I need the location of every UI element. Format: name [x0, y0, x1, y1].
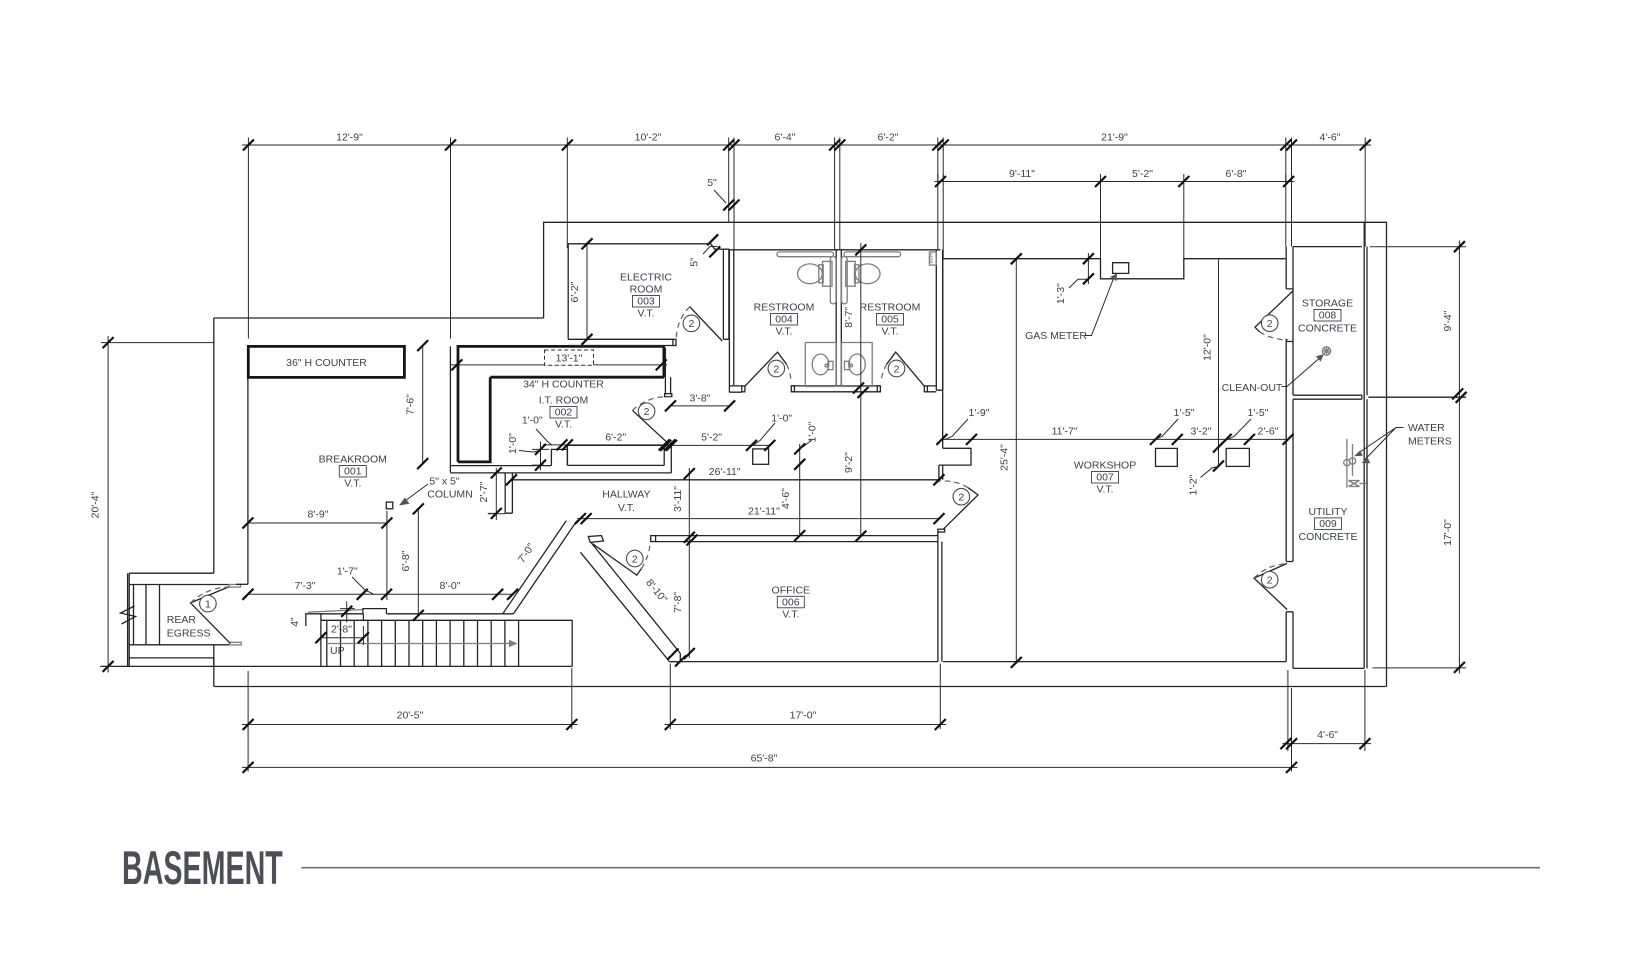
- svg-text:BREAKROOM: BREAKROOM: [319, 454, 387, 466]
- svg-text:2: 2: [958, 492, 964, 504]
- 4" bracket: [340, 602, 355, 623]
- 5x5 column: [386, 502, 393, 509]
- svg-text:26'-11": 26'-11": [709, 466, 741, 478]
- svg-text:12'-9": 12'-9": [336, 132, 363, 144]
- restroom 004 west wall: [729, 250, 733, 392]
- svg-text:WH: WH: [928, 253, 935, 264]
- storage/workshop west wall lower: [1286, 339, 1293, 478]
- electric room 6'-2" dim: [586, 244, 588, 339]
- storage/utility east wall x=1364.2: [1364, 222, 1367, 668]
- 1'-0" IT leaders: [536, 429, 552, 445]
- svg-text:1'-0": 1'-0": [522, 415, 543, 427]
- svg-text:9'-4": 9'-4": [1442, 310, 1454, 331]
- svg-text:4'-6": 4'-6": [1317, 729, 1338, 741]
- svg-text:20'-5": 20'-5": [397, 710, 424, 722]
- svg-text:RESTROOM: RESTROOM: [860, 302, 921, 314]
- svg-text:STORAGE: STORAGE: [1302, 298, 1353, 310]
- svg-text:34" H COUNTER: 34" H COUNTER: [523, 379, 604, 391]
- gas meter leader arrow: [1085, 279, 1114, 336]
- toilet 005: [846, 261, 856, 286]
- svg-text:2: 2: [632, 553, 638, 565]
- svg-text:5'-2": 5'-2": [701, 432, 722, 444]
- 36in counter (thick): [248, 346, 404, 377]
- 1'-2" leader: [1201, 467, 1219, 478]
- 13'-1" dim line: [450, 364, 667, 366]
- svg-text:5": 5": [707, 177, 717, 189]
- svg-text:2: 2: [894, 363, 900, 375]
- 25'-4" dim line: [1015, 259, 1017, 663]
- svg-text:2: 2: [1267, 575, 1273, 587]
- office east wall: [938, 532, 942, 662]
- storage/workshop west wall upper stub: [1286, 247, 1293, 289]
- svg-text:REAR: REAR: [167, 614, 197, 626]
- dim row 2 line y=181.5: [935, 181, 1295, 183]
- svg-text:HALLWAY: HALLWAY: [602, 489, 650, 501]
- 2'-7" dim: [488, 468, 506, 520]
- stair UP arrow: [327, 643, 509, 645]
- stair top wall jogs: [306, 609, 514, 626]
- svg-text:RESTROOM: RESTROOM: [754, 302, 815, 314]
- svg-text:5": 5": [689, 257, 701, 267]
- upper-left pocket wall y=318: [214, 317, 544, 319]
- IT room counter 34in (thick L): [458, 346, 664, 462]
- restroom south wall segments: [729, 386, 942, 392]
- svg-text:009: 009: [1319, 518, 1337, 530]
- svg-text:007: 007: [1096, 472, 1114, 484]
- svg-text:7'-8": 7'-8": [672, 592, 684, 613]
- office south wall: [670, 661, 1287, 663]
- svg-text:3'-8": 3'-8": [690, 393, 711, 405]
- office NE door jamb: [938, 529, 945, 532]
- svg-text:005: 005: [881, 314, 899, 326]
- IT south window rect: [567, 445, 671, 473]
- svg-text:002: 002: [555, 407, 573, 419]
- svg-text:ELECTRIC: ELECTRIC: [620, 272, 672, 284]
- svg-text:2: 2: [688, 318, 694, 330]
- utility west wall: [1286, 399, 1293, 561]
- restroom 005 door: [887, 352, 925, 386]
- rear egress stair treads: [134, 585, 160, 645]
- svg-text:36" H COUNTER: 36" H COUNTER: [286, 357, 367, 369]
- dim row 1 extension lines: [248, 138, 1365, 339]
- workshop 11'-7" dim line y=439.4: [942, 438, 1288, 440]
- svg-text:METERS: METERS: [1408, 436, 1452, 448]
- svg-text:OFFICE: OFFICE: [772, 584, 811, 596]
- 3'-8" dim: [671, 405, 730, 407]
- grab bars restroom 005: [844, 252, 901, 257]
- 1'-3" gas recess dim: [1069, 253, 1088, 288]
- dim row 1 line y=145: [242, 144, 1371, 146]
- grab bars restroom 004: [777, 252, 834, 257]
- door number circles: [200, 315, 1278, 612]
- stair block: [321, 620, 572, 666]
- svg-text:4'-6": 4'-6": [780, 488, 792, 509]
- utility south wall: [1293, 667, 1364, 669]
- svg-text:003: 003: [637, 296, 655, 308]
- restroom 004 door: [745, 352, 787, 386]
- svg-text:4'-6": 4'-6": [1320, 132, 1341, 144]
- 13'-1" dashed label box: [545, 350, 594, 365]
- svg-text:7'-3": 7'-3": [295, 580, 316, 592]
- svg-text:1'-5": 1'-5": [1174, 407, 1195, 419]
- svg-text:008: 008: [1319, 310, 1337, 322]
- toilet 004: [823, 261, 833, 286]
- rear egress door jambs: [229, 585, 241, 588]
- utility door: [1254, 563, 1287, 609]
- workshop east wall = storage west face: [1292, 289, 1294, 342]
- svg-text:CLEAN-OUT: CLEAN-OUT: [1222, 382, 1283, 394]
- workshop north wall y=258.7 with gas recess: [943, 259, 1286, 279]
- dim row 1 ticks: [243, 140, 1371, 151]
- utility west wall below door: [1286, 612, 1293, 669]
- svg-text:2: 2: [773, 363, 779, 375]
- svg-text:BASEMENT: BASEMENT: [122, 843, 283, 895]
- svg-text:V.T.: V.T.: [555, 419, 572, 431]
- svg-text:25'-4": 25'-4": [999, 444, 1011, 471]
- svg-text:V.T.: V.T.: [881, 326, 898, 338]
- svg-text:V.T.: V.T.: [775, 326, 792, 338]
- IT door leaf+arc: [633, 410, 669, 443]
- svg-text:V.T.: V.T.: [344, 478, 361, 490]
- svg-text:ROOM: ROOM: [630, 284, 663, 296]
- vanity 004: [805, 343, 836, 387]
- electric door leaf+arc: [690, 307, 723, 341]
- 8'-9" dim: [248, 511, 387, 600]
- hallway north line y=479.8: [512, 479, 938, 481]
- 3'-11"/7'-8" dim: [688, 468, 690, 658]
- svg-text:UTILITY: UTILITY: [1308, 506, 1347, 518]
- workshop west wall: [939, 250, 971, 480]
- svg-text:CONCRETE: CONCRETE: [1298, 323, 1357, 335]
- svg-text:COLUMN: COLUMN: [427, 489, 473, 501]
- clean-out leader arrow: [1282, 359, 1319, 387]
- 5in dim top, leader + double ticks: [714, 190, 726, 203]
- 12'-0" dim line: [1218, 259, 1220, 466]
- svg-text:2: 2: [644, 406, 650, 418]
- svg-text:21'-9": 21'-9": [1101, 132, 1128, 144]
- 7'-6" dim: [422, 346, 424, 464]
- svg-text:EGRESS: EGRESS: [167, 627, 211, 639]
- svg-text:9'-2": 9'-2": [843, 452, 855, 473]
- storage door: [1255, 291, 1293, 332]
- svg-text:1'-5": 1'-5": [1248, 407, 1269, 419]
- svg-text:8'-9": 8'-9": [308, 508, 329, 520]
- svg-text:2: 2: [1267, 318, 1273, 330]
- breakroom west wall x=247.9: [247, 378, 249, 585]
- vestibule column 1'x1': [753, 449, 769, 464]
- west outer wall x=213.8: [213, 318, 215, 573]
- left dim 20'-4" x=108: [100, 336, 214, 673]
- clean-out symbol: [1322, 347, 1330, 355]
- IT south wall: [450, 465, 671, 473]
- svg-text:21'-11": 21'-11": [748, 506, 780, 518]
- svg-text:I.T. ROOM: I.T. ROOM: [539, 395, 589, 407]
- svg-text:1'-9": 1'-9": [969, 407, 990, 419]
- restroom partition wall: [836, 250, 841, 386]
- breakroom east wall x=450.4: [449, 346, 451, 472]
- svg-text:WATER: WATER: [1408, 422, 1445, 434]
- svg-text:001: 001: [344, 466, 362, 478]
- svg-text:3'-11": 3'-11": [672, 486, 684, 512]
- 6'-8" dim: [417, 509, 419, 616]
- office NE door: [943, 488, 978, 530]
- workshop columns: [1156, 448, 1178, 466]
- svg-text:6'-2": 6'-2": [569, 281, 581, 302]
- svg-text:006: 006: [782, 596, 800, 608]
- IT south wall pilaster bump: [551, 449, 567, 465]
- svg-text:5'-2": 5'-2": [1132, 168, 1153, 180]
- IT east wall: [665, 348, 670, 394]
- svg-text:2'-8": 2'-8": [331, 624, 352, 636]
- svg-text:1'-3": 1'-3": [1055, 283, 1067, 304]
- restroom door jambs: [742, 386, 745, 392]
- stair guard 7'-0" diagonal (double): [503, 521, 577, 614]
- 9'-2"/8'-7" dim: [860, 243, 862, 536]
- svg-text:17'-0": 17'-0": [1442, 519, 1454, 546]
- svg-text:1'-0": 1'-0": [807, 421, 819, 442]
- svg-text:V.T.: V.T.: [782, 608, 799, 620]
- svg-text:1'-7": 1'-7": [337, 565, 358, 577]
- 6'-2" IT dim: [543, 444, 672, 446]
- svg-text:1'-2": 1'-2": [1188, 474, 1200, 495]
- rear egress break line zigzag: [121, 606, 136, 624]
- 21'-11" dim: [577, 518, 939, 520]
- svg-text:V.T.: V.T.: [1096, 484, 1113, 496]
- svg-text:17'-0": 17'-0": [790, 710, 817, 722]
- svg-text:2'-6": 2'-6": [1258, 426, 1279, 438]
- water meters leader arrows: [1396, 427, 1404, 429]
- 2'-8" dim: [321, 626, 364, 645]
- svg-text:12'-0": 12'-0": [1201, 334, 1213, 361]
- svg-text:1'-0": 1'-0": [771, 413, 792, 425]
- stair guard 8'-10" diagonal (double): [581, 543, 681, 662]
- WH box: [930, 252, 937, 265]
- svg-text:8'-0": 8'-0": [440, 580, 461, 592]
- leaders 1'-9", 1'-5", 1'-5": [945, 419, 1251, 439]
- 5in dim at electric NE corner: [703, 247, 718, 255]
- svg-text:GAS METER: GAS METER: [1025, 330, 1087, 342]
- svg-text:11'-7": 11'-7": [1052, 426, 1078, 438]
- column leader arrow: [405, 484, 428, 501]
- rear egress bottom inner wall: [129, 645, 230, 667]
- storage north wall: [1293, 246, 1362, 248]
- storage south / utility north wall: [1293, 395, 1466, 399]
- svg-text:13'-1": 13'-1": [556, 353, 583, 365]
- 5'-2"/1'-0" vestibule dim: [666, 444, 770, 446]
- svg-text:7'-6": 7'-6": [405, 394, 417, 415]
- 1'-0" col vertical + 4'-6" extension: [799, 444, 801, 536]
- svg-text:WORKSHOP: WORKSHOP: [1074, 460, 1136, 472]
- svg-text:6'-8": 6'-8": [400, 550, 412, 571]
- gas meter box: [1113, 263, 1129, 274]
- svg-text:10'-2": 10'-2": [635, 132, 662, 144]
- electric east wall: [723, 249, 729, 339]
- svg-text:4": 4": [289, 617, 301, 627]
- svg-text:004: 004: [775, 314, 793, 326]
- bottom right dim 4'-6" y=743.6: [1283, 670, 1372, 751]
- vanity 005: [842, 343, 873, 387]
- svg-text:1'-0": 1'-0": [507, 433, 519, 454]
- svg-text:V.T.: V.T.: [637, 308, 654, 320]
- hallway west wall stub: [505, 473, 512, 513]
- svg-text:8'-7": 8'-7": [843, 307, 855, 328]
- stair landing nosing rect: [588, 536, 603, 543]
- right dims 9'-4" / 17'-0" x=1459.4: [1370, 241, 1466, 674]
- office north wall: [656, 536, 938, 542]
- south wall outer y=690.7: [214, 645, 1387, 687]
- electric room walls: [568, 244, 729, 346]
- water meters assembly: [1347, 439, 1353, 488]
- svg-text:65'-8": 65'-8": [751, 752, 778, 764]
- svg-text:9'-11": 9'-11": [1009, 168, 1035, 180]
- svg-text:6'-8": 6'-8": [1226, 168, 1247, 180]
- office west door (hallway): [593, 544, 642, 575]
- 26'-11" dim on hallway line: [506, 474, 945, 485]
- bottom dim 65'-8" y=767.4: [242, 766, 1298, 768]
- bottom dims 20'-5" / 17'-0" y=724.5: [242, 724, 946, 726]
- svg-text:UP: UP: [330, 645, 345, 657]
- south wall inner y=666.4: [102, 665, 572, 667]
- rear egress enclosure outer: [128, 573, 214, 666]
- svg-text:20'-4": 20'-4": [90, 491, 102, 518]
- building top wall y=222.3: [544, 222, 1387, 686]
- svg-text:V.T.: V.T.: [618, 502, 635, 514]
- svg-text:2'-7": 2'-7": [478, 481, 490, 502]
- svg-text:3'-2": 3'-2": [1191, 426, 1212, 438]
- 7'-3"/1'-7"/8'-0" dim: [248, 593, 513, 595]
- svg-text:1: 1: [205, 598, 211, 610]
- svg-text:6'-2": 6'-2": [878, 132, 899, 144]
- svg-text:6'-4": 6'-4": [775, 132, 796, 144]
- svg-text:CONCRETE: CONCRETE: [1299, 531, 1358, 543]
- breakroom south wall: [236, 583, 248, 585]
- restroom top wall y=249.8: [729, 249, 940, 251]
- rear egress door wedge: [191, 587, 231, 644]
- stair treads: [327, 620, 519, 666]
- rear egress top inner wall: [129, 584, 229, 586]
- svg-text:6'-2": 6'-2": [605, 431, 626, 443]
- svg-text:5" x 5": 5" x 5": [429, 476, 459, 488]
- restroom east wall: [936, 250, 942, 390]
